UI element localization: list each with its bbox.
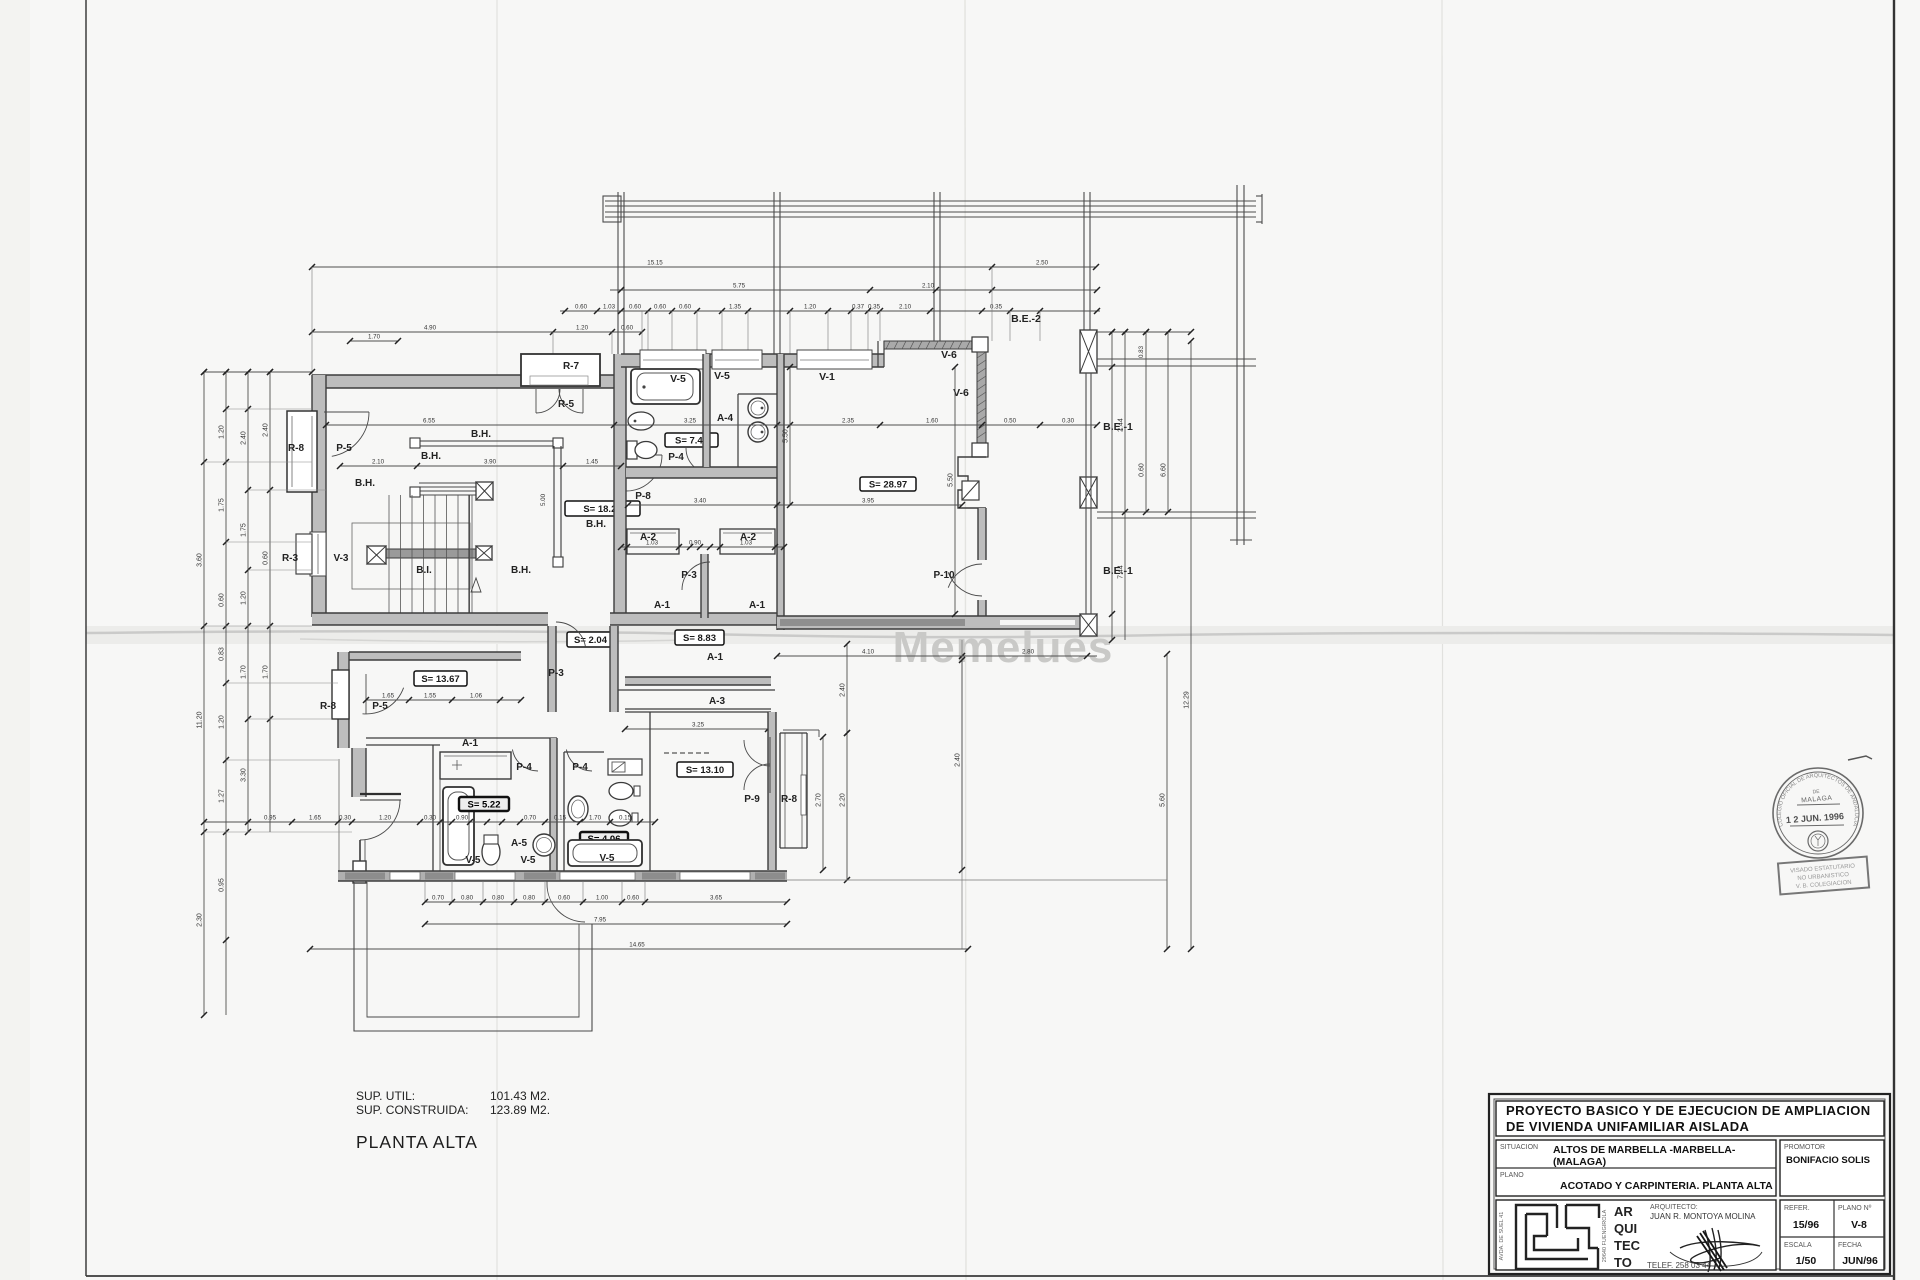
door P-10 arcs (948, 572, 982, 596)
svg-text:0.83: 0.83 (1138, 345, 1145, 358)
bottom wall band (338, 871, 787, 881)
right wing right wall (768, 712, 776, 870)
pen mark arrow (1848, 756, 1872, 760)
closet A-2 right (720, 529, 775, 554)
terrace dim verticals (1109, 329, 1115, 643)
svg-text:SITUACION: SITUACION (1500, 1144, 1538, 1151)
bottom wall hatch blocks (345, 873, 385, 880)
room label S=7.41 (665, 433, 718, 447)
door P-4 top bath arc (686, 448, 712, 474)
svg-text:0.70: 0.70 (524, 815, 537, 822)
top dim extension lines (311, 267, 313, 375)
niche R-3 (296, 534, 312, 574)
bidet top bath (628, 412, 654, 430)
svg-text:4.10: 4.10 (862, 649, 875, 656)
stair void outline (352, 523, 470, 589)
svg-text:BONIFACIO SOLIS: BONIFACIO SOLIS (1786, 1155, 1870, 1166)
svg-text:5.50: 5.50 (783, 429, 790, 443)
svg-text:1.70: 1.70 (241, 665, 248, 679)
svg-text:S= 5.22: S= 5.22 (467, 800, 500, 811)
svg-text:14.65: 14.65 (629, 942, 645, 949)
terrace dim top line (1097, 329, 1194, 335)
interior dim 2.35 1.60 row right (777, 418, 1100, 429)
svg-text:A-1: A-1 (707, 652, 724, 663)
svg-text:V-5: V-5 (465, 855, 480, 866)
svg-text:V-5: V-5 (520, 855, 535, 866)
A-3 room bottom wall (625, 708, 771, 710)
svg-text:1.06: 1.06 (470, 693, 483, 700)
svg-text:DE: DE (1812, 789, 1820, 796)
svg-text:P-4: P-4 (572, 762, 588, 773)
dim vertical 2.20 (840, 730, 851, 883)
svg-text:JUN/96: JUN/96 (1842, 1255, 1878, 1267)
step wall to upper section (877, 341, 879, 367)
svg-text:B.E.-2: B.E.-2 (1011, 313, 1041, 325)
svg-text:7.95: 7.95 (594, 917, 607, 924)
dim 7.95 (422, 917, 790, 928)
svg-text:0.60: 0.60 (621, 325, 634, 332)
svg-text:3.90: 3.90 (484, 459, 497, 466)
svg-text:3.60: 3.60 (197, 553, 204, 567)
window gaps bottom wall (455, 872, 515, 880)
bathtub bath2 horizontal (568, 840, 642, 866)
svg-text:123.89 M2.: 123.89 M2. (490, 1103, 550, 1117)
svg-text:1/50: 1/50 (1796, 1255, 1817, 1267)
svg-text:2.40: 2.40 (840, 683, 847, 697)
svg-text:P-10: P-10 (933, 570, 955, 581)
svg-text:AR: AR (1614, 1204, 1633, 1219)
room S=13.67 left wall (338, 652, 349, 748)
svg-text:0.60: 0.60 (558, 895, 571, 902)
svg-text:ESCALA: ESCALA (1784, 1242, 1812, 1249)
svg-text:101.43 M2.: 101.43 M2. (490, 1089, 550, 1103)
stair mid rail cap (410, 487, 420, 497)
svg-text:6.55: 6.55 (423, 418, 436, 425)
stair newel X left (367, 546, 386, 564)
corner lines right (783, 729, 819, 731)
dim row closets (618, 540, 787, 551)
bath top wall with windows (621, 354, 884, 367)
svg-text:0.60: 0.60 (219, 593, 226, 607)
thin wall below arc (359, 840, 361, 861)
dim vertical 5.60 (1160, 651, 1171, 952)
svg-text:2.40: 2.40 (263, 423, 270, 437)
svg-text:DE VIVIENDA UNIFAMILIAR AIS: DE VIVIENDA UNIFAMILIAR AISLADA (1506, 1119, 1749, 1134)
svg-text:1.55: 1.55 (424, 693, 437, 700)
svg-text:1.27: 1.27 (219, 789, 226, 803)
svg-text:2.10: 2.10 (372, 459, 385, 466)
svg-text:S= 28.97: S= 28.97 (869, 480, 907, 491)
dim 15.15 / 2.50 top line (309, 260, 1099, 271)
left dim connectors (226, 408, 312, 410)
svg-text:0.95: 0.95 (264, 815, 277, 822)
bath1 walls (550, 738, 557, 871)
architect logo meander (1516, 1205, 1599, 1269)
pergola beam left end cap (603, 196, 621, 222)
room label S=2.04 (567, 632, 614, 647)
svg-text:P-9: P-9 (744, 794, 760, 805)
svg-text:V-6: V-6 (941, 349, 957, 361)
svg-text:V-5: V-5 (599, 853, 614, 864)
column X bottom (1080, 614, 1097, 636)
pergola beam upper (605, 200, 1256, 202)
fold line vertical 3 (1442, 0, 1443, 1280)
page border right (1893, 0, 1895, 1280)
column X top (1080, 330, 1097, 373)
svg-text:0.30: 0.30 (339, 815, 352, 822)
promotor cell (1780, 1140, 1884, 1196)
page border bottom (86, 1275, 1894, 1277)
basin A-4 circle 2 (748, 422, 768, 442)
svg-text:1.20: 1.20 (241, 591, 248, 605)
svg-text:(MALAGA): (MALAGA) (1553, 1156, 1606, 1168)
left dim column 2 (219, 369, 230, 1015)
dim 14.65 (307, 942, 971, 953)
svg-text:0.95: 0.95 (219, 878, 226, 892)
svg-text:S= 13.10: S= 13.10 (686, 765, 724, 776)
title block outer border (1489, 1094, 1890, 1274)
terrace beam right lower (1097, 511, 1256, 513)
room label S=4.06 dark (580, 832, 628, 845)
room S=8.83 walls (618, 689, 775, 691)
svg-text:ARQUITECTO:: ARQUITECTO: (1650, 1204, 1698, 1211)
svg-text:A-1: A-1 (749, 600, 766, 611)
svg-text:5.60: 5.60 (1160, 793, 1167, 807)
rectangular stamp (1778, 857, 1869, 895)
svg-text:ACOTADO Y CARPINTERIA. PLAN: ACOTADO Y CARPINTERIA. PLANTA ALTA (1560, 1180, 1773, 1192)
dim chain room 13.67 (363, 693, 524, 704)
svg-text:P-4: P-4 (516, 762, 532, 773)
living right wall lower (978, 508, 986, 560)
door R-5 arcs (536, 389, 560, 413)
svg-text:1.75: 1.75 (219, 498, 226, 512)
svg-text:5.50: 5.50 (948, 473, 955, 487)
basin bath2 (568, 796, 588, 822)
window V-6 vertical hatched (977, 352, 986, 445)
basin A-4 circle 1 (748, 398, 768, 418)
svg-text:B.H.: B.H. (471, 429, 491, 440)
svg-text:R-8: R-8 (288, 443, 305, 454)
closet A-2 left (627, 529, 679, 554)
rot dim 2.40 (840, 641, 851, 736)
architect cell (1496, 1200, 1776, 1270)
svg-text:REFER.: REFER. (1784, 1205, 1810, 1212)
svg-text:0.35: 0.35 (868, 304, 881, 311)
stair right rail cap (553, 557, 563, 567)
dashed beam over (664, 752, 710, 754)
porch outline outer (354, 882, 592, 1031)
bath mid wall (703, 354, 710, 467)
rot dim 7.40 (955, 657, 966, 873)
living bottom wall (777, 616, 1097, 629)
svg-text:0.80: 0.80 (461, 895, 474, 902)
svg-text:29640 FUENGIROLA: 29640 FUENGIROLA (1602, 1209, 1608, 1262)
interior dim 6.55 3.25 row (323, 418, 780, 429)
stair lower rail hatched (386, 549, 476, 558)
porch outline thin vertical (338, 759, 340, 876)
svg-text:3.40: 3.40 (694, 498, 707, 505)
niche R-7 (521, 354, 600, 386)
svg-text:0.60: 0.60 (627, 895, 640, 902)
dim 1.70 mini line (347, 334, 401, 345)
svg-text:5.00: 5.00 (540, 493, 547, 506)
interior dim 3.40 3.95 (625, 498, 965, 509)
svg-text:A-4: A-4 (717, 413, 734, 424)
bath bottom wall (626, 467, 777, 478)
pergola beam lower (605, 211, 1256, 213)
pergola post 1 (617, 192, 619, 356)
svg-text:1.03: 1.03 (646, 540, 659, 547)
bottom right dim 4.10 2.80 (774, 649, 1097, 660)
door P-3 corridor arc (556, 622, 586, 647)
niche R-8 lower-left (332, 670, 349, 719)
svg-text:11.20: 11.20 (197, 711, 204, 728)
wing wall left of 13.10 (649, 712, 651, 752)
svg-text:3.25: 3.25 (684, 418, 697, 425)
svg-text:B.H.: B.H. (421, 451, 441, 462)
svg-text:0.70: 0.70 (432, 895, 445, 902)
svg-text:1.65: 1.65 (382, 693, 395, 700)
pergola post 2 (773, 192, 775, 356)
svg-text:0.60: 0.60 (629, 304, 642, 311)
bathtub top (631, 369, 700, 404)
mirror cabinet bath2 (608, 759, 642, 775)
svg-text:2.44: 2.44 (1118, 418, 1125, 432)
svg-text:2.10: 2.10 (899, 304, 912, 311)
svg-text:0.37: 0.37 (852, 304, 865, 311)
svg-text:V-5: V-5 (714, 370, 730, 382)
svg-text:V-6: V-6 (953, 387, 969, 399)
svg-text:1.20: 1.20 (804, 304, 817, 311)
svg-text:V-5: V-5 (670, 373, 686, 385)
svg-text:3.25: 3.25 (692, 722, 705, 729)
svg-text:0.30: 0.30 (424, 815, 437, 822)
svg-text:1.70: 1.70 (368, 334, 381, 341)
svg-text:1.20: 1.20 (379, 815, 392, 822)
basin counter A-4 (737, 394, 739, 470)
svg-text:3.30: 3.30 (241, 768, 248, 782)
vestibule wall dark (360, 793, 401, 795)
svg-text:A-1: A-1 (654, 600, 671, 611)
stair center line (468, 495, 470, 616)
room label S=13.67 (414, 671, 467, 686)
svg-text:R-8: R-8 (320, 701, 337, 712)
extension vertical x962 (961, 640, 963, 949)
left wing left wall (312, 375, 326, 617)
svg-text:1.75: 1.75 (241, 523, 248, 537)
wc bath1 (482, 839, 500, 865)
svg-text:0.50: 0.50 (1004, 418, 1017, 425)
svg-text:S= 8.83: S= 8.83 (683, 633, 716, 644)
block V-6 bottom (972, 443, 988, 457)
left outer wall lower (352, 748, 366, 797)
svg-text:FECHA: FECHA (1838, 1242, 1862, 1249)
door P-4 bath2 arc (566, 750, 592, 772)
terrace beam right upper (1097, 358, 1256, 360)
svg-text:P-4: P-4 (668, 452, 684, 463)
corridor walls (548, 626, 556, 712)
svg-text:A-1: A-1 (462, 738, 479, 749)
svg-text:7.44: 7.44 (1118, 565, 1125, 579)
svg-text:2.40: 2.40 (955, 753, 962, 767)
stair newel X upper (476, 482, 493, 500)
pergola post 5 right with T cap (1236, 185, 1238, 545)
bath1 left wall (432, 745, 434, 871)
svg-text:V-8: V-8 (1851, 1219, 1867, 1231)
svg-text:PROYECTO BASICO Y DE EJECU: PROYECTO BASICO Y DE EJECUCION DE AMPLIA… (1506, 1103, 1871, 1118)
circular stamp (1773, 768, 1863, 858)
svg-text:1.00: 1.00 (596, 895, 609, 902)
svg-text:R-5: R-5 (558, 399, 575, 410)
svg-text:0.90: 0.90 (456, 815, 469, 822)
room label S=5.22 dark (459, 797, 509, 811)
refer cells (1780, 1200, 1884, 1270)
svg-text:12.29: 12.29 (1184, 691, 1191, 709)
svg-text:15.15: 15.15 (647, 260, 663, 267)
door P-5 lower-left arc (363, 688, 404, 714)
porch entry door arc (547, 884, 585, 922)
bottom wall chain extensions (424, 881, 426, 902)
page border left (85, 0, 87, 1276)
A-3 room top wall (625, 677, 771, 685)
svg-text:1.70: 1.70 (589, 815, 602, 822)
stair mid rails (419, 482, 476, 484)
svg-text:1.45: 1.45 (586, 459, 599, 466)
svg-text:A-3: A-3 (709, 696, 726, 707)
hall right wall (614, 354, 626, 620)
svg-text:1.03: 1.03 (603, 304, 616, 311)
svg-text:2.10: 2.10 (922, 283, 935, 290)
svg-text:TEC: TEC (1614, 1238, 1641, 1253)
svg-text:SUP. CONSTRUIDA:: SUP. CONSTRUIDA: (356, 1103, 468, 1117)
column X middle (1080, 477, 1097, 508)
closet A-1 bottom (440, 752, 511, 779)
svg-text:P-5: P-5 (336, 443, 352, 454)
bottom chain dims (422, 895, 790, 906)
niche R-8 right (779, 733, 781, 848)
room label S=13.10 (677, 762, 733, 777)
bath2 walls (563, 752, 565, 871)
stair right rail (553, 446, 555, 559)
svg-text:R-3: R-3 (282, 553, 299, 564)
pergola post 3 (933, 192, 935, 342)
svg-text:JUAN R. MONTOYA MOLINA: JUAN R. MONTOYA MOLINA (1650, 1212, 1756, 1221)
window V-3 in left wall (310, 532, 326, 576)
fold line vertical 2 (965, 0, 966, 1280)
left dim column 1 (197, 369, 208, 1018)
chimney bump (353, 861, 366, 883)
svg-text:0.15: 0.15 (619, 815, 632, 822)
door P-4 bath1 arc (512, 750, 538, 772)
title cell (1496, 1101, 1884, 1136)
svg-text:2.80: 2.80 (1022, 649, 1035, 656)
door P-5 upper-left arc (332, 412, 369, 456)
fold line vertical 1 (496, 0, 498, 1280)
svg-text:6.60: 6.60 (1161, 463, 1168, 477)
upper wall with V-6 window hatched (884, 341, 978, 349)
svg-text:P-3: P-3 (548, 668, 564, 679)
svg-text:4.90: 4.90 (424, 325, 437, 332)
svg-text:0.80: 0.80 (492, 895, 505, 902)
wc top bath (627, 441, 637, 459)
svg-text:0.90: 0.90 (689, 540, 702, 547)
dim 3.25 corridor (622, 722, 771, 733)
svg-text:P-3: P-3 (681, 570, 697, 581)
svg-text:TO: TO (1614, 1255, 1632, 1270)
living left wall (777, 354, 784, 630)
svg-text:1.03: 1.03 (740, 540, 753, 547)
stair treads (388, 495, 390, 615)
stair top rail (412, 440, 561, 442)
dim 5.75 line (610, 283, 1100, 294)
fold crease horizontal band (86, 626, 1894, 644)
svg-text:1.35: 1.35 (729, 304, 742, 311)
svg-text:S= 2.04: S= 2.04 (574, 635, 608, 646)
svg-text:5.75: 5.75 (733, 283, 746, 290)
svg-text:PLANO: PLANO (1500, 1172, 1524, 1179)
room label S=28.97 (860, 477, 916, 491)
svg-text:0.60: 0.60 (575, 304, 588, 311)
svg-text:A-5: A-5 (511, 838, 528, 849)
svg-text:1.20: 1.20 (219, 715, 226, 729)
bidet bath2 (609, 810, 631, 826)
stair top rail cap left (410, 438, 420, 448)
svg-text:PROMOTOR: PROMOTOR (1784, 1144, 1825, 1151)
window V-5 a (640, 350, 706, 369)
svg-text:0.60: 0.60 (654, 304, 667, 311)
svg-text:ALTOS DE MARBELLA -MARBELLA: ALTOS DE MARBELLA -MARBELLA- (1553, 1144, 1736, 1156)
niche R-8 upper-left (287, 411, 317, 492)
dim small chain top (560, 304, 1100, 315)
svg-text:B.H.: B.H. (586, 519, 606, 530)
svg-text:P-8: P-8 (635, 491, 651, 502)
hall bottom wall (312, 613, 548, 625)
svg-text:SUP. UTIL:: SUP. UTIL: (356, 1089, 415, 1103)
svg-text:2.40: 2.40 (241, 431, 248, 445)
window V-5 b (712, 350, 762, 369)
stair arrow (471, 578, 481, 592)
svg-text:P-5: P-5 (372, 701, 388, 712)
svg-text:R-8: R-8 (781, 794, 798, 805)
svg-text:1.20: 1.20 (576, 325, 589, 332)
wc bath2 (609, 783, 633, 800)
svg-text:2.20: 2.20 (840, 793, 847, 807)
terrace edge beam vertical (1085, 373, 1087, 614)
pergola post 4 (1083, 192, 1085, 331)
divider wall between A-1 rooms (701, 554, 708, 618)
svg-text:1.60: 1.60 (926, 418, 939, 425)
svg-text:1.70: 1.70 (263, 665, 270, 679)
svg-text:PLANO Nº: PLANO Nº (1838, 1205, 1872, 1212)
svg-text:2.50: 2.50 (1036, 260, 1049, 267)
svg-text:2.35: 2.35 (842, 418, 855, 425)
dim vertical 2.70 (816, 734, 827, 873)
bathtub bath1 vertical (443, 787, 474, 865)
left chain y822 (201, 815, 658, 826)
left top connector dim (201, 369, 315, 375)
basin bath1 round (533, 834, 555, 856)
svg-text:0.80: 0.80 (523, 895, 536, 902)
room label S=8.83 (675, 630, 724, 645)
french door P-9 arcs (744, 740, 770, 766)
svg-text:QUI: QUI (1614, 1221, 1637, 1236)
svg-text:1.65: 1.65 (309, 815, 322, 822)
window V-1 (797, 350, 872, 369)
svg-text:V-1: V-1 (819, 371, 835, 383)
chimney diag box (962, 481, 979, 500)
interior dim 2.10 3.90 1.45 (337, 459, 624, 470)
rooms bottom wall mid (610, 613, 777, 625)
